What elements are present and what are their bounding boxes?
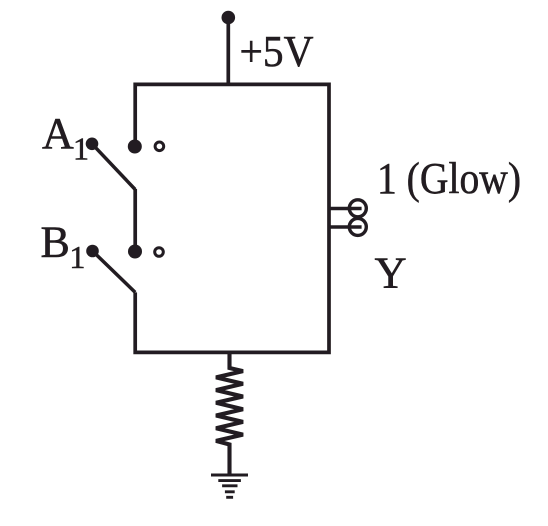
svg-text:A: A <box>42 109 74 158</box>
svg-text:1: 1 <box>69 239 85 275</box>
svg-text:1 (Glow): 1 (Glow) <box>377 153 521 203</box>
svg-text:Y: Y <box>375 247 407 297</box>
svg-text:1: 1 <box>73 130 89 166</box>
svg-text:+5V: +5V <box>240 27 314 76</box>
svg-text:B: B <box>41 218 70 267</box>
